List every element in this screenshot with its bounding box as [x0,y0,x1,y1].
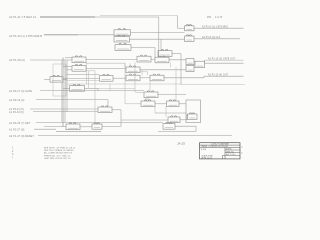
svg-text:REF 250-1 SPARE U9 GATES: REF 250-1 SPARE U9 GATES [44,149,74,152]
svg-text:A1 P2-17 (3) GATE: A1 P2-17 (3) GATE [9,90,32,93]
svg-text:A1 P2-23 (6): A1 P2-23 (6) [9,111,24,114]
svg-text:A1 P2-19 (4): A1 P2-19 (4) [9,99,24,102]
svg-text:TIMING + CONTROL NO 250-104: TIMING + CONTROL NO 250-104 [201,146,228,148]
svg-text:A2 P1-10 (3) GATE OUT: A2 P1-10 (3) GATE OUT [208,57,236,60]
svg-text:A1 P2-25 (7) SET: A1 P2-25 (7) SET [9,122,31,125]
svg-text:250: 250 [207,17,212,19]
svg-text:A2 P1-8 (2) CLK: A2 P1-8 (2) CLK [202,36,221,39]
svg-text:JA 25: JA 25 [177,142,185,146]
svg-text:U.S.M.: U.S.M. [201,149,207,151]
svg-text:PREFIX A2 +5V 7 GND 14: PREFIX A2 +5V 7 GND 14 [44,154,71,157]
svg-text:A2 P1-43 (1) 1.875 MHZ B: A2 P1-43 (1) 1.875 MHZ B [9,34,42,38]
svg-text:A2 P1-41 7.5 MHZ CL: A2 P1-41 7.5 MHZ CL [9,15,37,19]
svg-text:LOGIC P DIAGRAM: LOGIC P DIAGRAM [211,143,229,146]
svg-text:A2 P1-45 (2): A2 P1-45 (2) [9,58,25,62]
svg-text:SHT 2 OF 4: SHT 2 OF 4 [226,154,235,156]
svg-text:A2 P1-12 (4) OUT: A2 P1-12 (4) OUT [208,73,229,76]
svg-text:1-6-73: 1-6-73 [215,17,223,19]
svg-text:A2 P1-47 (9) RESET: A2 P1-47 (9) RESET [9,135,34,138]
svg-text:A2 P1-6 (1) 1.875 MHZ: A2 P1-6 (1) 1.875 MHZ [202,26,228,29]
svg-text:DWG 250: DWG 250 [226,151,234,153]
svg-text:A1 P2-27 (8): A1 P2-27 (8) [9,128,24,131]
svg-text:LAST REF U14 R8 CR2 C4: LAST REF U14 R8 CR2 C4 [44,157,72,160]
svg-text:ALL U ARE SN7400 SN7473: ALL U ARE SN7400 SN7473 [44,152,73,155]
